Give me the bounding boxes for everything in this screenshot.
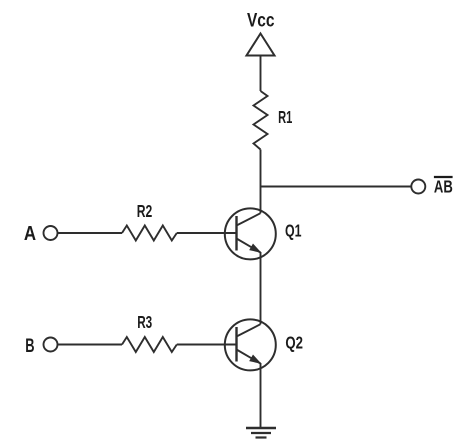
wire Q1 emitter to Q2 collector <box>260 252 262 324</box>
input terminal A circle <box>44 226 58 240</box>
wire R1 to output junction <box>260 150 262 187</box>
ground symbol <box>246 428 276 438</box>
transistor Q1 <box>225 208 276 259</box>
svg-text:Q2: Q2 <box>285 333 303 353</box>
svg-text:A: A <box>24 223 36 245</box>
resistor R3 <box>122 337 177 352</box>
wire A terminal to R2 <box>58 232 123 234</box>
wire R2 to Q1 base <box>177 232 237 234</box>
wire Vcc triangle to R1 <box>260 56 262 92</box>
svg-text:R2: R2 <box>137 201 153 221</box>
resistor R2 <box>122 226 177 241</box>
transistor Q2 <box>225 319 276 370</box>
power symbol Vcc triangle <box>247 34 275 56</box>
svg-text:Vcc: Vcc <box>247 10 275 32</box>
svg-text:B: B <box>25 335 34 357</box>
overline for AB <box>434 176 453 178</box>
output terminal circle <box>411 180 425 194</box>
wire Q2 emitter to ground <box>260 363 262 428</box>
svg-text:Q1: Q1 <box>285 221 302 241</box>
wire B terminal to R3 <box>58 344 123 346</box>
svg-text:R1: R1 <box>278 107 292 127</box>
svg-text:AB: AB <box>434 177 453 197</box>
input terminal B circle <box>44 338 58 352</box>
wire output junction to Q1 collector <box>260 187 262 214</box>
svg-text:R3: R3 <box>137 312 152 332</box>
wire output junction to output terminal <box>261 186 412 188</box>
resistor R1 <box>254 91 268 150</box>
wire R3 to Q2 base <box>177 344 237 346</box>
